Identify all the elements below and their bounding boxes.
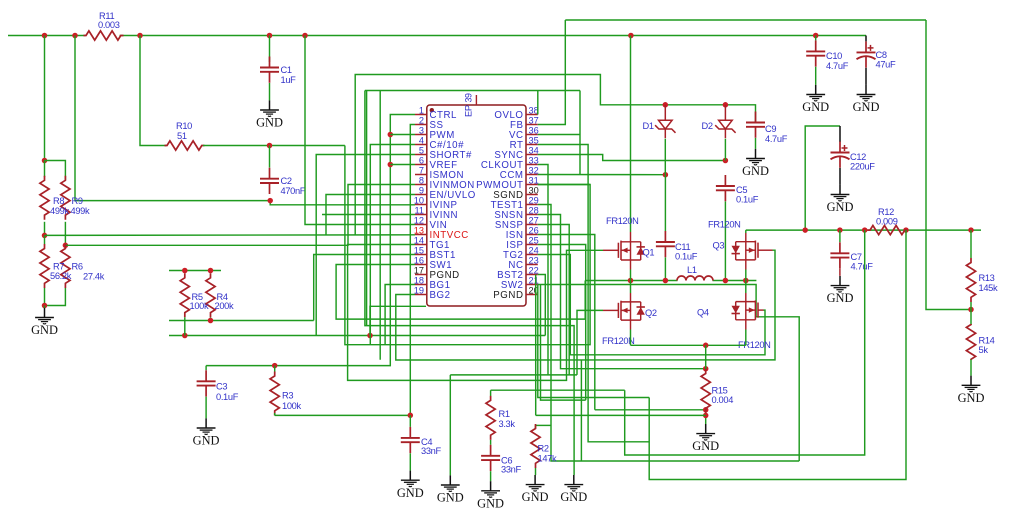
ground R7 R6: [44, 308, 46, 318]
node R13 top junction: [968, 227, 974, 233]
svg-text:C12: C12: [850, 152, 866, 162]
svg-text:499k: 499k: [50, 206, 69, 216]
svg-text:147k: 147k: [538, 454, 557, 464]
transistor Q2: [603, 309, 618, 311]
resistor R11: [84, 31, 124, 40]
svg-text:30: 30: [529, 185, 539, 195]
wire R5 bottom to BST2 drop: [169, 335, 545, 337]
wire pin29 loop bottom: [538, 205, 799, 462]
svg-text:25: 25: [529, 235, 539, 245]
pin 5 SHORT#: [415, 154, 427, 156]
wire Q2 source down: [630, 330, 632, 346]
wire FB rail down to divider: [926, 20, 971, 310]
wire SW to Q2 drain: [630, 281, 632, 294]
wire staircase to ISN lower: [535, 275, 537, 416]
wire VIN to R8: [44, 36, 46, 161]
svg-text:C10: C10: [826, 51, 842, 61]
resistor R9: [61, 176, 70, 220]
resistor R3: [270, 372, 279, 416]
wire pin 11 IVINN: [322, 214, 415, 216]
pin 2 SS: [415, 124, 427, 126]
wire R2 bottom: [535, 468, 537, 475]
diode D2: [724, 105, 726, 120]
svg-text:GND: GND: [742, 164, 769, 178]
svg-text:GND: GND: [437, 491, 464, 505]
resistor R15: [701, 369, 710, 413]
wire stub under IC corner: [370, 306, 426, 335]
node R15 top sense: [703, 366, 709, 372]
wire nest vertical a: [366, 91, 368, 326]
pin 15 BST1: [415, 254, 427, 256]
wire R14 bottom: [970, 360, 972, 376]
svg-text:Q3: Q3: [713, 241, 725, 251]
wire C7 top: [839, 230, 841, 242]
wire R3 bottom lead: [274, 413, 276, 415]
svg-text:0.004: 0.004: [712, 395, 734, 405]
node C11 bottom: [663, 278, 669, 284]
wire R13 top lead: [970, 230, 972, 258]
wire R10 out to C2 node: [203, 145, 345, 147]
wire pin31 PWMOUT stub: [538, 184, 590, 186]
wire C2 node to PWMOUT pin 31: [345, 146, 590, 345]
lead Q3 source: [745, 260, 747, 270]
ground C12: [839, 185, 841, 195]
wire Q1 source to SW: [630, 270, 632, 281]
pin 4 C#/10#: [415, 144, 427, 146]
pin 26 ISN: [526, 234, 538, 236]
wire D1 cathode down: [664, 139, 666, 175]
wire pin22 BST2 down: [538, 275, 546, 336]
node C2 bottom junction: [267, 198, 273, 204]
wire pin37 FB up to top rail: [538, 20, 566, 125]
inductor L1: [677, 276, 713, 281]
wire C9 bottom: [755, 138, 757, 149]
ground C1: [269, 100, 271, 110]
ground C6: [490, 481, 492, 491]
wire R1 top line: [491, 389, 625, 391]
svg-text:PGND: PGND: [493, 290, 523, 301]
wire B right down to CCM line: [579, 91, 581, 175]
pin 21 SW2: [526, 284, 538, 286]
wire pin 6 VREF: [390, 164, 415, 166]
svg-text:GND: GND: [522, 490, 549, 504]
svg-text:499k: 499k: [71, 206, 90, 216]
svg-text:0.009: 0.009: [876, 217, 898, 227]
wire pin15 BST1 down: [314, 255, 415, 321]
wire VIN rail left: [8, 35, 85, 37]
wire VOUT rail: [746, 229, 981, 231]
svg-text:2: 2: [419, 115, 424, 125]
wire R2 top lead: [535, 425, 537, 428]
pin 38 OVLO: [526, 114, 538, 116]
svg-text:100k: 100k: [190, 301, 209, 311]
svg-text:EP: EP: [464, 105, 474, 117]
svg-text:51: 51: [177, 131, 187, 141]
wire staircase to ISP line: [541, 285, 586, 401]
wire switch node SW2 segment: [713, 280, 757, 282]
svg-text:C7: C7: [851, 252, 862, 262]
wire pin1 CTRL tie down to C3 R3: [275, 115, 415, 366]
svg-text:R7: R7: [53, 262, 64, 272]
node R15 bottom sense: [703, 407, 709, 413]
capacitor C1: [269, 57, 271, 68]
wire nest vertical c: [580, 360, 582, 461]
svg-text:22: 22: [529, 265, 539, 275]
node R5 line junction: [367, 333, 373, 339]
transistor Q3: [758, 249, 773, 251]
pin 30 SGND: [526, 194, 538, 196]
wire ISN upper sense: [595, 409, 706, 411]
wire R8 top lead: [44, 161, 46, 178]
pin 13 INTVCC: [415, 234, 427, 236]
ground R2: [534, 475, 536, 485]
svg-text:21: 21: [529, 275, 539, 285]
node R5 bottom: [182, 333, 188, 339]
wire pin2 SS down to C4: [410, 125, 415, 416]
svg-text:6: 6: [419, 155, 424, 165]
svg-text:GND: GND: [692, 439, 719, 453]
node R8-R7 junction: [42, 233, 48, 239]
node C4 junction: [408, 413, 414, 419]
svg-text:1: 1: [419, 105, 424, 115]
wire R9 to IVINMON pin 8: [65, 185, 415, 246]
svg-text:5k: 5k: [979, 345, 989, 355]
svg-text:24: 24: [529, 245, 539, 255]
pin EP 39: [475, 95, 477, 105]
svg-text:R15: R15: [712, 386, 728, 396]
wire VIN to Q1 drain: [630, 36, 632, 233]
wire B horizontal: [365, 90, 580, 92]
wire R15 top lead: [705, 345, 707, 372]
svg-text:34: 34: [529, 145, 539, 155]
svg-text:15: 15: [414, 245, 424, 255]
wire pin21 SW2 loop: [538, 285, 799, 462]
wire B left down to gnd5: [365, 91, 574, 476]
capacitor C5: [724, 175, 726, 186]
node R8 top: [42, 158, 48, 164]
svg-text:Q4: Q4: [697, 308, 709, 318]
svg-text:GND: GND: [256, 116, 283, 130]
wire R7 top lead: [44, 235, 46, 244]
wire C12 top lead: [839, 126, 841, 142]
capacitor C12 polarized: [839, 142, 841, 153]
wire pin16 SW1 to switch node: [336, 265, 585, 320]
capacitor C11: [664, 231, 666, 242]
svg-text:BG2: BG2: [430, 290, 451, 301]
wire R7 bottom: [44, 288, 46, 306]
svg-text:5: 5: [419, 145, 424, 155]
pin 34 SYNC: [526, 154, 538, 156]
wire C4 bottom: [409, 453, 411, 470]
svg-text:23: 23: [529, 255, 539, 265]
wire staircase to bottom loop: [538, 285, 649, 398]
wire pin36 VC: [538, 134, 580, 136]
node pin6 junction: [388, 162, 394, 168]
svg-text:4.7uF: 4.7uF: [826, 61, 849, 71]
svg-text:220uF: 220uF: [850, 162, 875, 172]
svg-text:35: 35: [529, 135, 539, 145]
pin 29 TEST1: [526, 204, 538, 206]
wire pin18 BG1 down: [385, 285, 415, 345]
capacitor C2: [269, 168, 271, 179]
wire R8 bottom: [44, 222, 46, 236]
wire pin38 OVLO up: [537, 91, 539, 115]
wire Q3 drain up: [745, 230, 747, 233]
svg-text:GND: GND: [827, 291, 854, 305]
wire R4 bottom lead: [210, 317, 212, 320]
svg-text:FR120N: FR120N: [708, 220, 741, 230]
svg-text:27.4k: 27.4k: [83, 272, 105, 282]
svg-text:3: 3: [419, 125, 424, 135]
node D2 anode: [723, 102, 729, 108]
svg-text:D1: D1: [643, 121, 654, 131]
svg-text:GND: GND: [477, 496, 504, 510]
wire Q2 gate down to sense line: [577, 310, 603, 375]
svg-text:33nF: 33nF: [501, 465, 521, 475]
svg-text:28: 28: [529, 205, 539, 215]
svg-text:GND: GND: [958, 391, 985, 405]
lead Q1 source: [630, 260, 632, 270]
node VIN junction Q1 drain: [628, 33, 634, 39]
wire C6 bottom: [490, 471, 492, 481]
node R15 bottom sense 2: [703, 413, 709, 419]
pin 23 NC: [526, 264, 538, 266]
wire VIN rail to pin 12: [305, 36, 415, 225]
wire R4 bottom to pin15 drop: [169, 320, 314, 322]
lead Q4 source: [745, 320, 747, 330]
wire R2 top jog: [536, 424, 552, 426]
wire A INTVCC to boost diodes and C9: [355, 75, 755, 235]
svg-text:C11: C11: [675, 242, 690, 252]
wire pin9 EN to divider line: [326, 195, 415, 235]
svg-text:R10: R10: [176, 121, 192, 131]
svg-text:13: 13: [414, 225, 424, 235]
wire pin28 to R15 top sense: [538, 215, 706, 369]
svg-text:R9: R9: [72, 196, 83, 206]
svg-text:GND: GND: [827, 200, 854, 214]
node R4 top: [208, 268, 214, 274]
svg-text:GND: GND: [193, 434, 220, 448]
pin 36 VC: [526, 134, 538, 136]
ground C10: [815, 85, 817, 95]
node C2 top junction: [267, 143, 273, 149]
pin 18 BG1: [415, 284, 427, 286]
wire loop R12 to pin4 line: [649, 230, 906, 479]
wire pin5 SHORT# down: [316, 155, 415, 336]
svg-text:C8: C8: [876, 50, 887, 60]
wire C11 bottom: [664, 257, 666, 280]
node D2 C5 junction: [723, 158, 729, 164]
resistor R6: [61, 244, 70, 288]
svg-text:10: 10: [414, 195, 424, 205]
svg-text:GND: GND: [31, 323, 58, 337]
wire C2 top lead: [269, 146, 271, 168]
node VIN junction IVINP: [72, 33, 78, 39]
svg-text:R8: R8: [53, 196, 64, 206]
ground C3: [205, 418, 207, 428]
node R3 top: [272, 363, 278, 369]
svg-text:33nF: 33nF: [421, 446, 441, 456]
wire C3 top lead: [205, 366, 207, 371]
lead Q1 drain: [630, 232, 632, 242]
diode D1: [664, 105, 666, 120]
wire R1 top lead: [490, 390, 492, 396]
svg-text:1uF: 1uF: [281, 75, 297, 85]
pin 7 ISMON: [415, 174, 427, 176]
svg-text:37: 37: [529, 115, 539, 125]
ground R14: [970, 376, 972, 386]
svg-text:C5: C5: [736, 185, 747, 195]
pin 20 PGND: [526, 294, 538, 296]
svg-text:GND: GND: [853, 100, 880, 114]
pin 1 marker dot: [430, 108, 434, 112]
wire jog to R9 top: [45, 161, 66, 181]
pin 17 PGND: [415, 274, 427, 276]
pin 27 SNSP: [526, 224, 538, 226]
wire R15 bottom lead: [705, 413, 707, 424]
wire pin14 TG1 to Q1 gate: [348, 245, 603, 381]
wire ISN sense lower: [536, 414, 706, 416]
pin 9 EN/UVLO: [415, 194, 427, 196]
wire R1 bottom lead: [490, 440, 492, 445]
wire IVINP to pin 10: [270, 201, 415, 205]
svg-text:17: 17: [414, 265, 424, 275]
resistor R2: [531, 424, 540, 468]
svg-text:R12: R12: [878, 207, 894, 217]
wire pin24 TG2 to Q4 gate: [538, 255, 765, 355]
node VIN junction R10: [137, 33, 143, 39]
svg-text:11: 11: [414, 205, 424, 215]
resistor R13: [966, 258, 975, 302]
svg-text:R6: R6: [72, 262, 83, 272]
capacitor C3: [205, 370, 207, 381]
wire C1 bottom: [269, 83, 271, 100]
wire C3 bottom: [205, 397, 207, 419]
wire D2 cathode down: [724, 139, 726, 161]
wire pin4 down: [370, 145, 415, 345]
wire C1 top: [269, 36, 271, 63]
svg-text:100k: 100k: [282, 401, 301, 411]
pin 25 ISP: [526, 244, 538, 246]
wire C7 bottom: [839, 269, 841, 276]
svg-text:Q2: Q2: [645, 308, 657, 318]
pin 12 VIN: [415, 224, 427, 226]
resistor R12: [868, 226, 908, 235]
svg-text:GND: GND: [560, 490, 587, 504]
resistor R8: [40, 176, 49, 220]
node R5 top: [182, 268, 188, 274]
ground C7: [839, 276, 841, 286]
svg-text:8: 8: [419, 175, 424, 185]
wire pin19 BG2 loop to Q3 gate: [396, 250, 775, 360]
svg-text:C9: C9: [765, 124, 776, 134]
pin 19 BG2: [415, 294, 427, 296]
resistor R5: [180, 273, 189, 317]
pin 28 SNSN: [526, 214, 538, 216]
node C5 bottom: [723, 278, 729, 284]
svg-text:200k: 200k: [215, 301, 234, 311]
node R9-R6 junction: [63, 243, 69, 249]
svg-text:39: 39: [464, 93, 474, 103]
wire R3 to C4 node: [275, 414, 411, 416]
capacitor C7: [839, 242, 841, 253]
pin 22 BST2: [526, 274, 538, 276]
svg-text:36: 36: [529, 125, 539, 135]
svg-text:7: 7: [419, 165, 424, 175]
wire sense gnd line: [450, 374, 577, 376]
resistor R4: [206, 273, 215, 317]
wire R13 to R14: [970, 302, 972, 325]
op-amp U1 LT8228 controller body: [427, 105, 526, 306]
wire pin34 to C5 D2 node: [538, 155, 726, 161]
ground 5: [573, 475, 575, 485]
svg-text:0.1uF: 0.1uF: [675, 252, 698, 262]
svg-text:4: 4: [419, 135, 424, 145]
node R7-R6 gnd junction: [42, 303, 48, 309]
svg-text:GND: GND: [802, 100, 829, 114]
svg-text:0.003: 0.003: [98, 20, 120, 30]
pin 8 IVINMON: [415, 184, 427, 186]
node VIN junction C1: [267, 33, 273, 39]
svg-text:R13: R13: [979, 273, 995, 283]
pin 1 CTRL: [415, 114, 427, 116]
pin 32 CCM: [526, 174, 538, 176]
svg-text:470nF: 470nF: [281, 186, 306, 196]
wire C10 bottom: [815, 67, 817, 85]
node VIN junction C10: [813, 33, 819, 39]
node VIN junction R8: [42, 33, 48, 39]
wire VIN rail right of R11: [120, 35, 867, 37]
svg-text:29: 29: [529, 195, 539, 205]
ground 2: [449, 475, 451, 485]
svg-text:FR120N: FR120N: [602, 336, 635, 346]
wire VIN to R10: [140, 36, 166, 146]
node VIN junction pin12: [302, 33, 308, 39]
svg-text:9: 9: [419, 185, 424, 195]
svg-text:19: 19: [414, 285, 424, 295]
svg-text:33: 33: [529, 155, 539, 165]
node C7 junction: [837, 227, 843, 233]
svg-text:FR120N: FR120N: [606, 216, 639, 226]
svg-text:R2: R2: [538, 444, 549, 454]
pin 10 IVINP: [415, 204, 427, 206]
wire R6 bottom jog: [45, 288, 66, 306]
resistor R10: [165, 141, 205, 150]
wire R9 bottom: [64, 222, 66, 246]
svg-text:L1: L1: [687, 265, 697, 275]
wire to ground: [44, 306, 46, 308]
wire C11 top: [664, 175, 666, 231]
ground C4: [409, 471, 411, 481]
lead Q3 drain: [745, 233, 747, 242]
node R15 top: [703, 343, 709, 349]
wire R5 bottom lead: [184, 317, 186, 335]
wire C8 top lead: [865, 36, 867, 42]
ground C8: [865, 85, 867, 95]
svg-text:27: 27: [529, 215, 539, 225]
svg-text:C3: C3: [216, 382, 227, 392]
svg-text:32: 32: [529, 165, 539, 175]
wire C5 to SW2 node: [724, 201, 726, 280]
svg-text:Q1: Q1: [643, 248, 655, 258]
lead Q2 source: [630, 320, 632, 329]
wire pin27 down: [538, 225, 569, 375]
wire C4 top lead: [409, 415, 411, 427]
wire IVINP from VIN: [75, 36, 270, 201]
capacitor C8 polarized: [865, 41, 867, 52]
wire pin35 loop bottom: [538, 145, 649, 442]
pin 37 FB: [526, 124, 538, 126]
